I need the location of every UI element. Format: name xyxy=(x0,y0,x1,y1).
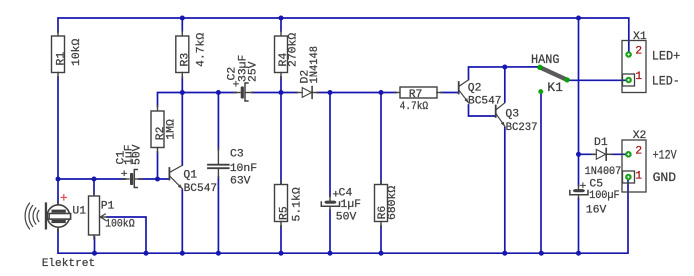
junction D1 anode node xyxy=(576,152,581,157)
junction rail Q1 emitter xyxy=(180,251,185,256)
svg-text:5.1kΩ: 5.1kΩ xyxy=(292,187,304,221)
capacitor C2 xyxy=(234,92,253,94)
junction rail R6 xyxy=(379,251,384,256)
svg-text:Elektret: Elektret xyxy=(42,258,95,270)
svg-text:+12V: +12V xyxy=(653,148,677,163)
svg-text:1N4007: 1N4007 xyxy=(585,166,622,178)
resistor R6 xyxy=(375,180,388,227)
transistor Q2 xyxy=(458,82,460,94)
transistor Q3 xyxy=(495,106,497,118)
svg-text:Q3: Q3 xyxy=(505,109,519,121)
svg-text:R3: R3 xyxy=(179,53,191,67)
wire P1 wiper to bottom rail xyxy=(107,217,146,253)
transistor Q1 xyxy=(168,168,170,180)
svg-text:R1: R1 xyxy=(56,52,68,66)
wire Q1 emitter to bottom rail xyxy=(181,190,183,253)
wire C5 bottom xyxy=(578,199,580,254)
wire P1 bottom xyxy=(94,237,96,253)
wire Q3 emitter to bottom rail xyxy=(504,128,506,254)
junction top rail R3 xyxy=(180,16,185,21)
svg-text:63V: 63V xyxy=(230,175,251,187)
pin 2 X1 xyxy=(625,51,631,57)
svg-text:2: 2 xyxy=(635,145,642,157)
svg-text:10kΩ: 10kΩ xyxy=(71,38,83,66)
svg-text:C3: C3 xyxy=(230,149,244,161)
svg-text:Q2: Q2 xyxy=(468,82,482,94)
diode D1 xyxy=(592,148,613,160)
resistor R1 xyxy=(52,31,65,78)
wire R2 bottom xyxy=(157,152,159,179)
svg-text:P1: P1 xyxy=(101,201,115,213)
junction rail C4 xyxy=(328,251,333,256)
svg-text:LED-: LED- xyxy=(652,73,680,88)
connector X1 xyxy=(622,41,646,93)
svg-text:270kΩ: 270kΩ xyxy=(287,33,299,67)
junction rail Q3 emitter xyxy=(502,251,507,256)
junction rail P1 body xyxy=(92,251,97,256)
junction rail C5 xyxy=(576,251,581,256)
svg-text:C5: C5 xyxy=(589,179,603,191)
svg-text:+: + xyxy=(580,181,587,193)
junction R4-R5 node xyxy=(279,90,284,95)
wire top rail xyxy=(58,18,629,51)
svg-text:680kΩ: 680kΩ xyxy=(387,186,399,220)
wire R7 to Q2 base xyxy=(441,92,458,94)
svg-text:10nF: 10nF xyxy=(230,163,258,175)
svg-text:BC547: BC547 xyxy=(184,183,218,195)
resistor R2 xyxy=(151,105,164,153)
wire K1 lower contact to bottom rail xyxy=(540,94,542,254)
wire C3 bottom xyxy=(217,177,219,253)
svg-text:1N4148: 1N4148 xyxy=(309,46,321,84)
pin 1 X2 xyxy=(625,174,631,180)
svg-text:+: + xyxy=(121,169,128,181)
junction rail C3 xyxy=(216,251,221,256)
resistor R3 xyxy=(176,31,189,78)
wire V+ column top rail to D1 junction to C5 xyxy=(578,18,580,186)
capacitor C1 xyxy=(122,178,142,180)
junction rail R5 xyxy=(279,251,284,256)
wire Q3 collector xyxy=(504,67,506,102)
wire R4 top xyxy=(280,18,282,31)
svg-text:2: 2 xyxy=(635,46,642,58)
switch K1 xyxy=(540,67,567,79)
wire Q2 emitter to Q3 base xyxy=(469,105,495,116)
svg-text:1: 1 xyxy=(635,170,642,182)
junction C3 top node xyxy=(216,90,221,95)
svg-text:1: 1 xyxy=(635,71,642,83)
svg-text:HANG: HANG xyxy=(531,52,560,67)
svg-text:+: + xyxy=(60,191,68,205)
svg-text:LED+: LED+ xyxy=(652,48,681,63)
svg-text:100kΩ: 100kΩ xyxy=(105,218,135,230)
svg-text:100µF: 100µF xyxy=(589,190,620,202)
junction Q1 base node xyxy=(155,177,160,182)
svg-text:K1: K1 xyxy=(547,80,563,95)
svg-text:C4: C4 xyxy=(339,188,353,200)
svg-text:R7: R7 xyxy=(409,89,423,101)
wire R5 bottom xyxy=(280,226,282,253)
svg-text:50V: 50V xyxy=(132,144,144,165)
wire Q1 collector xyxy=(181,93,183,166)
wire D1 anode xyxy=(579,153,595,155)
resistor R5 xyxy=(275,180,288,227)
junction mic top node xyxy=(56,177,61,182)
svg-text:1µF: 1µF xyxy=(341,199,362,211)
wire R3 top xyxy=(181,18,183,31)
wire D1 cathode to X2 pin2 xyxy=(611,153,626,155)
svg-text:X2: X2 xyxy=(633,130,647,142)
potentiometer P1 xyxy=(89,192,109,239)
wire C3 top xyxy=(217,93,219,150)
wire C4 top xyxy=(329,93,331,197)
junction top rail V+ xyxy=(576,16,581,21)
svg-text:1MΩ: 1MΩ xyxy=(166,119,178,140)
svg-text:R5: R5 xyxy=(279,206,291,220)
junction R6 top node xyxy=(379,90,384,95)
resistor R7 xyxy=(395,87,442,98)
wire R2 top corner from collector row xyxy=(158,93,237,107)
junction rail K1 xyxy=(539,251,544,256)
connector X2 xyxy=(622,140,646,192)
wire R6 bottom xyxy=(380,226,382,253)
pin 1 X1 xyxy=(625,77,631,83)
svg-text:X1: X1 xyxy=(633,31,647,43)
wire R6 top xyxy=(380,93,382,185)
svg-text:GND: GND xyxy=(653,170,677,185)
svg-text:25V: 25V xyxy=(247,61,259,82)
svg-text:D1: D1 xyxy=(594,137,608,149)
wire D2 to R7 xyxy=(317,92,396,94)
junction P1 top node xyxy=(92,177,97,182)
pin 2 X2 xyxy=(625,151,631,157)
capacitor C5 xyxy=(573,189,585,192)
svg-text:BC237: BC237 xyxy=(506,122,538,134)
svg-text:Q1: Q1 xyxy=(183,169,197,181)
svg-text:16V: 16V xyxy=(586,205,607,217)
junction Q1 collector node xyxy=(180,90,185,95)
svg-text:4.7kΩ: 4.7kΩ xyxy=(400,101,429,113)
wire R3 bottom xyxy=(181,77,183,93)
junction C4 top node xyxy=(328,90,333,95)
wire C4 bottom xyxy=(329,210,331,253)
svg-text:4.7kΩ: 4.7kΩ xyxy=(196,33,208,67)
junction top rail R4 xyxy=(279,16,284,21)
capacitor C3 xyxy=(217,148,219,178)
wire C2 to D2 xyxy=(252,92,297,94)
wire R4 bottom to R5 top xyxy=(280,77,282,184)
svg-text:U1: U1 xyxy=(72,206,86,218)
wire K1 to X1 pin1 xyxy=(569,79,626,81)
wire R1 bottom to mic top xyxy=(57,77,59,203)
junction rail P1 wiper xyxy=(144,251,149,256)
wire Q2 collector to K1 xyxy=(469,67,542,80)
wire bottom rail xyxy=(58,180,628,253)
capacitor C4 xyxy=(324,201,336,204)
wire P1 top xyxy=(93,179,95,194)
resistor R4 xyxy=(275,31,288,78)
wire mic row left segment xyxy=(58,178,125,180)
diode D2 xyxy=(297,87,319,99)
svg-text:50V: 50V xyxy=(336,212,357,224)
microphone U1 Elektret xyxy=(47,202,69,231)
wire mic row right segment C1 to Q1 base xyxy=(139,178,168,180)
svg-text:+: + xyxy=(233,80,240,92)
junction Q3 collector node xyxy=(502,65,507,70)
